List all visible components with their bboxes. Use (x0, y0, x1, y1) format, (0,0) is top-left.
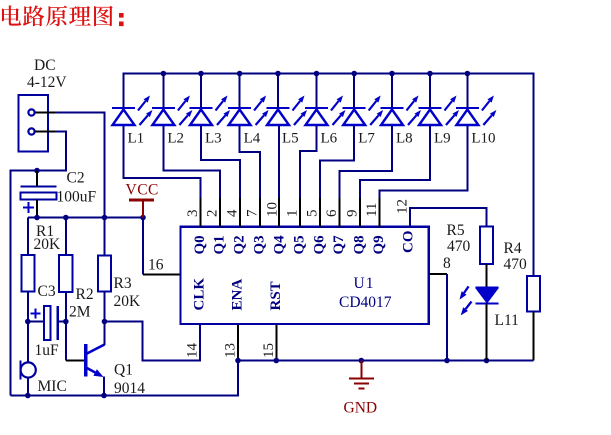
junction rail-L6 (314, 71, 320, 77)
wire C2 top lead (36, 171, 38, 187)
svg-text:Q2: Q2 (232, 235, 248, 254)
junction R3-collector-CLK (102, 319, 108, 325)
wire R4 bottom lead (533, 312, 535, 361)
pin stub Q1 (219, 198, 221, 227)
svg-text:Q3: Q3 (252, 235, 268, 254)
junction VCC rail R3 (102, 215, 108, 221)
svg-text:Q1: Q1 (212, 235, 228, 254)
svg-text:U1: U1 (354, 275, 375, 292)
wire top LED cathode rail (124, 74, 534, 277)
transistor Q1 NPN (86, 344, 105, 377)
pin stub Q3 (259, 198, 261, 227)
wire L7 anode to pin Q6 (320, 126, 354, 228)
svg-text:20K: 20K (34, 236, 62, 253)
svg-text:Q1: Q1 (114, 362, 133, 379)
svg-text:11: 11 (364, 203, 380, 217)
junction pin8 wire (444, 358, 450, 364)
wire DC+ to VCC rail (35, 112, 55, 114)
wire pin8 to ground (446, 274, 448, 361)
VCC symbol (129, 200, 154, 218)
svg-text:100uF: 100uF (57, 189, 97, 206)
wire VCC rail (28, 217, 143, 219)
wire L2 anode to pin Q1 (163, 126, 220, 228)
svg-text:C2: C2 (67, 170, 85, 187)
wire MIC bottom lead (27, 378, 29, 396)
junction rail-L7 (351, 71, 357, 77)
LED L4 (228, 96, 269, 126)
wire VCC to pin16 (142, 218, 144, 275)
wire L1 anode to pin Q0 (124, 126, 201, 228)
wire L8 anode to pin Q7 (340, 126, 392, 228)
wire C2 bottom lead (36, 200, 38, 218)
svg-text:CLK: CLK (192, 278, 208, 311)
svg-text:13: 13 (223, 343, 239, 358)
svg-text:L6: L6 (321, 131, 338, 147)
wire C3 right lead (59, 321, 66, 323)
svg-text:5: 5 (304, 210, 320, 218)
wire L9 rail stub (429, 74, 431, 108)
svg-text:20K: 20K (114, 293, 142, 310)
svg-text:14: 14 (185, 343, 201, 359)
junction rail-L2 (161, 71, 167, 77)
LED L9 (419, 96, 460, 126)
pin stub Q0 (200, 198, 202, 227)
pin stub Q7 (339, 198, 341, 227)
wire L10 rail stub (466, 74, 468, 108)
svg-text:L10: L10 (471, 131, 495, 147)
LED L1 (112, 96, 153, 126)
svg-text:MIC: MIC (38, 378, 67, 395)
svg-text:Q9: Q9 (371, 235, 387, 254)
LED L8 (381, 96, 422, 126)
junction pin13 (235, 358, 241, 364)
LED L2 (152, 96, 193, 126)
wire collector node to CLK pin14 (105, 322, 201, 361)
junction VCC rail VCC stem (140, 215, 146, 221)
junction GND stem (359, 358, 365, 364)
connector J DC input box (19, 95, 49, 152)
pin 13 stub (237, 325, 239, 361)
junction pin15 (274, 358, 280, 364)
junction emitter-rail (101, 393, 107, 399)
wire ground net to right side (238, 360, 534, 362)
DC terminal 2 (28, 128, 34, 134)
wire L2 rail stub (162, 74, 164, 108)
svg-text:9014: 9014 (114, 380, 145, 397)
wire CO pin12 to R5 (410, 208, 487, 228)
svg-text:4-12V: 4-12V (27, 74, 67, 91)
svg-text:L2: L2 (167, 131, 184, 147)
wire L5 anode to pin Q4 (278, 126, 280, 228)
resistor R2 body (59, 255, 72, 292)
LED L6 (305, 96, 346, 126)
junction rail-L10 (465, 71, 471, 77)
wire R2 bottom lead to base node (65, 292, 67, 361)
wire Q1 base lead (66, 360, 84, 362)
capacitor C2 plate top (20, 185, 56, 187)
wire L10 anode to pin Q9 (380, 126, 468, 228)
pin 16 lead (143, 274, 181, 276)
wire Q1 collector lead (104, 322, 106, 346)
LED L10 (456, 96, 497, 126)
LED L5 (267, 96, 308, 126)
ground GND symbol (349, 361, 374, 389)
wire L9 anode to pin Q8 (360, 126, 430, 228)
svg-text:GND: GND (344, 400, 378, 417)
svg-text:Q5: Q5 (291, 235, 307, 254)
junction L11 cathode wire (484, 358, 490, 364)
svg-text:Q6: Q6 (311, 235, 327, 255)
wire L6 rail stub (316, 74, 318, 108)
wire L5 rail stub (277, 74, 279, 108)
junction rail-L8 (389, 71, 395, 77)
svg-text:12: 12 (395, 199, 411, 214)
wire R2 top lead (65, 218, 67, 256)
svg-text:CD4017: CD4017 (339, 294, 392, 311)
svg-text:CO: CO (401, 231, 417, 254)
LED L7 (343, 96, 384, 126)
junction MIC-rail (25, 393, 31, 399)
junction R2-C3-base (63, 319, 69, 325)
svg-text:10: 10 (264, 202, 280, 217)
svg-text:L4: L4 (244, 131, 261, 147)
svg-text:3: 3 (185, 210, 201, 218)
junction rail-L3 (198, 71, 204, 77)
pin stub Q8 (359, 198, 361, 227)
microphone MIC (21, 361, 36, 380)
svg-text:R4: R4 (504, 240, 522, 257)
junction rail-L9 (427, 71, 433, 77)
svg-text:ENA: ENA (230, 279, 246, 311)
resistor R1 body (21, 255, 34, 292)
wire L4 rail stub (239, 74, 241, 108)
resistor R4 body (527, 276, 540, 312)
DC terminal 1 (28, 109, 34, 115)
wire L8 rail stub (391, 74, 393, 108)
pin 8 lead (429, 273, 447, 275)
LED L11 (460, 286, 499, 315)
svg-text:9: 9 (345, 210, 361, 218)
svg-text:VCC: VCC (126, 182, 159, 199)
C3 plus mark (31, 309, 41, 319)
junction VCC rail R2 (63, 215, 69, 221)
svg-text:DC: DC (34, 57, 56, 74)
pin stub Q4 (278, 198, 280, 227)
wire C3 left lead (28, 321, 44, 323)
C2 plus mark (23, 202, 34, 213)
wire L3 rail stub (200, 74, 202, 108)
svg-text:1uF: 1uF (35, 342, 60, 359)
svg-text:470: 470 (504, 256, 528, 273)
wire L3 anode to pin Q2 (201, 126, 240, 228)
pin 15 stub (275, 325, 277, 361)
svg-text:8: 8 (443, 255, 451, 272)
junction C2 top (34, 168, 40, 174)
pin stub CO (409, 213, 411, 227)
svg-text:R2: R2 (76, 286, 94, 303)
title 电路原理图: (2, 5, 124, 26)
wire L7 rail stub (353, 74, 355, 108)
wire L6 anode to pin Q5 (300, 126, 317, 228)
wire R3 bottom lead (104, 292, 106, 322)
svg-text:RST: RST (268, 281, 284, 310)
wire L11 to ground (486, 304, 488, 361)
wire L4 anode to pin Q3 (240, 126, 261, 228)
svg-text:4: 4 (225, 209, 241, 217)
capacitor C3 left plate (polarized) (44, 306, 51, 340)
capacitor C2 plate bottom (polarized) (20, 193, 56, 200)
svg-text:2M: 2M (69, 304, 91, 321)
op-amp U1 CD4017 IC box (181, 227, 429, 324)
svg-text:L5: L5 (282, 131, 299, 147)
svg-text:Q7: Q7 (331, 235, 347, 255)
svg-text:7: 7 (245, 209, 261, 217)
svg-text:R5: R5 (447, 222, 465, 239)
svg-text:16: 16 (148, 257, 164, 274)
junction R1-C3-MIC (25, 319, 31, 325)
svg-text:C3: C3 (38, 283, 56, 300)
pin stub Q9 (379, 198, 381, 227)
pin stub Q5 (299, 198, 301, 227)
wire MIC top lead (27, 322, 29, 363)
svg-text:L1: L1 (128, 131, 145, 147)
svg-text:Q8: Q8 (352, 235, 368, 254)
wire R1 top lead (27, 218, 29, 256)
svg-text:6: 6 (324, 209, 340, 217)
resistor R5 body (480, 227, 493, 264)
junction rail-L5 (275, 71, 281, 77)
resistor R3 body (98, 256, 111, 292)
wire R1 bottom lead (27, 292, 29, 322)
junction VCC rail C2 (34, 215, 40, 221)
svg-text:R3: R3 (114, 275, 132, 292)
pin stub Q2 (239, 198, 241, 227)
svg-text:L7: L7 (358, 131, 375, 147)
wire Q1 emitter lead (103, 377, 105, 396)
svg-text:470: 470 (447, 238, 471, 255)
capacitor C3 right plate (57, 306, 59, 340)
LED L3 (190, 96, 231, 126)
svg-text:Q4: Q4 (271, 235, 287, 255)
svg-text:L3: L3 (205, 131, 222, 147)
svg-text:L9: L9 (434, 131, 451, 147)
svg-text:15: 15 (261, 343, 277, 358)
wire R5 to L11 (486, 264, 488, 287)
junction rail-L4 (237, 71, 243, 77)
wire R3 top lead (104, 218, 106, 256)
wire emitter ground rail (11, 361, 238, 396)
wire DC- down-left (35, 131, 55, 133)
svg-text:L8: L8 (396, 131, 413, 147)
pin stub Q6 (319, 198, 321, 227)
svg-text:1: 1 (284, 210, 300, 218)
svg-text:2: 2 (205, 210, 221, 218)
svg-text:Q0: Q0 (192, 235, 208, 254)
svg-text:L11: L11 (495, 312, 519, 329)
